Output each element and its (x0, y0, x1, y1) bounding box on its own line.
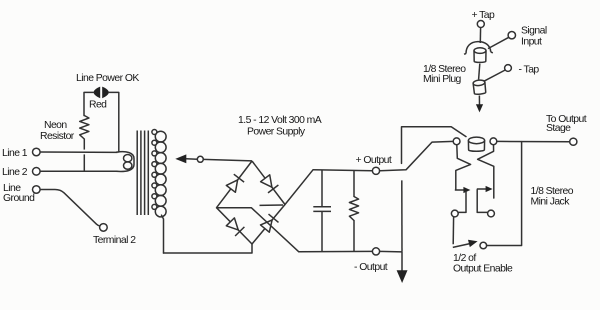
terminal jack ring contact (490, 138, 497, 145)
svg-text:Line 1: Line 1 (2, 148, 28, 159)
svg-text:1/2 of: 1/2 of (453, 253, 476, 264)
wire left arrow to lug (458, 192, 466, 213)
wire tap to bridge top (203, 159, 252, 161)
jack left spring contact (456, 145, 471, 190)
plug insertion arrow (476, 104, 483, 112)
diode D1 (left-top edge) (226, 174, 244, 192)
wire + output to jack (380, 141, 454, 170)
wire bridge top-left edge (217, 161, 253, 208)
tap terminal (197, 156, 203, 162)
diode D2 (top-right edge) (261, 175, 279, 193)
wire bridge bottom-left edge (217, 208, 253, 244)
terminal Terminal 2 (100, 224, 108, 232)
capacitor C1 (313, 207, 331, 212)
diode D4 (bottom-right edge) (261, 214, 279, 232)
wire transformer bottom bus to bridge bottom corner (164, 244, 253, 253)
terminal switch output (480, 242, 487, 249)
wire plug shaft (479, 64, 480, 80)
label + Output (356, 155, 392, 166)
terminal To Output Stage (570, 138, 577, 145)
wire bridge positive inner stub (right corner toward centre) (260, 204, 284, 206)
svg-text:+ Tap: + Tap (472, 10, 496, 21)
terminal jack tip contact (453, 138, 460, 145)
label - Output (354, 262, 388, 273)
wire + tap stem (479, 28, 481, 44)
label power supply rating (238, 115, 322, 138)
label - Tap (519, 65, 540, 76)
plug skirt (464, 42, 493, 55)
jack right throw arrow (477, 186, 493, 192)
terminal + Tap (477, 21, 484, 28)
svg-text:Signal: Signal (521, 26, 547, 37)
label To Output Stage (546, 114, 587, 134)
adjustable tap arrow (175, 154, 197, 163)
indicator lamp (Red LED), Line Power OK (94, 87, 109, 99)
wire secondary bottom lead (162, 215, 164, 253)
svg-text:Power Supply: Power Supply (247, 127, 306, 138)
wire bridge top-right edge (252, 161, 285, 205)
wire stub to ground arrow (401, 252, 403, 271)
wire negative riser lower segment (401, 180, 403, 252)
wire - output to arrow junction (380, 250, 402, 253)
wire plug stem (478, 96, 480, 105)
svg-text:Red: Red (89, 100, 107, 111)
label Line 2 (2, 167, 28, 178)
neon resistor (80, 116, 89, 140)
wire resistor top lead (353, 170, 355, 197)
label Signal Input (521, 26, 547, 48)
svg-text:Mini Jack: Mini Jack (531, 197, 571, 208)
wire lamp right lead (109, 92, 119, 152)
wire capacitor bottom lead (321, 212, 323, 252)
svg-text:+ Output: + Output (356, 155, 392, 166)
wire - tap lead (484, 70, 505, 81)
label 1/2 of Output Enable (453, 253, 513, 275)
jack left throw arrow (455, 187, 471, 193)
transformer core (137, 131, 148, 216)
jack sleeve barrel (468, 137, 484, 151)
svg-text:- Tap: - Tap (519, 65, 540, 76)
label Line Power OK (76, 73, 139, 84)
wire bridge negative output (left corner through middle, crossing bottom-right edge) (217, 208, 299, 252)
wire negative rail (299, 250, 373, 252)
svg-text:Stage: Stage (546, 123, 571, 134)
terminal - Output (372, 248, 379, 255)
svg-text:- Output: - Output (354, 262, 388, 273)
wire lug to switch (452, 217, 454, 244)
transformer secondary winding (152, 130, 166, 217)
wire positive rail (313, 170, 372, 171)
wire bridge bottom-right edge (252, 205, 285, 245)
diode D3 (left-bottom edge) (226, 218, 244, 236)
label Terminal 2 (93, 235, 136, 246)
label Resistor (40, 131, 75, 142)
wire resistor lead crossing Line 1 (break at crossing) (83, 139, 85, 171)
terminal jack lug right (488, 210, 495, 217)
wire switch to riser (487, 142, 522, 246)
ground arrow (to output stage common) (397, 270, 408, 283)
label 1/8 Stereo Mini Plug (423, 64, 466, 85)
wire resistor bottom lead (353, 221, 355, 252)
label + Tap (472, 10, 496, 21)
svg-text:Resistor: Resistor (40, 131, 75, 142)
wire signal input lead (488, 37, 509, 48)
plug tip section (474, 48, 486, 63)
wire capacitor top lead (321, 170, 323, 207)
wire negative riser upper segment (402, 127, 467, 164)
wire Line Ground to Terminal 2 (40, 190, 100, 227)
svg-text:Input: Input (521, 36, 542, 47)
wire lamp left lead (84, 92, 94, 115)
svg-text:Ground: Ground (3, 193, 35, 204)
terminal Line Ground (33, 186, 41, 194)
terminal - Tap (505, 65, 512, 72)
switch 1/2 of Output Enable (453, 240, 478, 248)
svg-text:Terminal 2: Terminal 2 (93, 235, 136, 246)
plug ring section (473, 80, 486, 95)
label Neon (44, 120, 67, 131)
terminal + Output (372, 167, 379, 174)
wire Line 2 (40, 170, 117, 172)
svg-text:Output Enable: Output Enable (453, 264, 513, 275)
label 1/8 Stereo Mini Jack (531, 186, 574, 208)
terminal jack lug left (451, 210, 458, 217)
jack right spring contact (478, 145, 494, 198)
wire Line 1 (40, 151, 117, 153)
svg-text:Mini Plug: Mini Plug (423, 74, 462, 85)
svg-text:1/8 Stereo: 1/8 Stereo (531, 186, 574, 197)
wire right arrow to lug (477, 190, 487, 213)
svg-text:Neon: Neon (44, 120, 67, 131)
svg-text:Line Power OK: Line Power OK (76, 73, 139, 84)
terminal Line 2 (33, 168, 41, 176)
wire jack to output stage (497, 140, 570, 142)
label Line 1 (2, 148, 28, 159)
label Line Ground (3, 183, 35, 204)
wire bridge positive output diagonal (285, 170, 313, 205)
svg-text:Line 2: Line 2 (2, 167, 28, 178)
terminal Signal Input (508, 32, 515, 39)
svg-text:1.5 - 12 Volt 300 mA: 1.5 - 12 Volt 300 mA (238, 115, 322, 126)
label Red (89, 100, 107, 111)
bleeder resistor R1 (349, 197, 358, 221)
transformer primary winding (116, 152, 134, 172)
terminal Line 1 (33, 148, 41, 156)
